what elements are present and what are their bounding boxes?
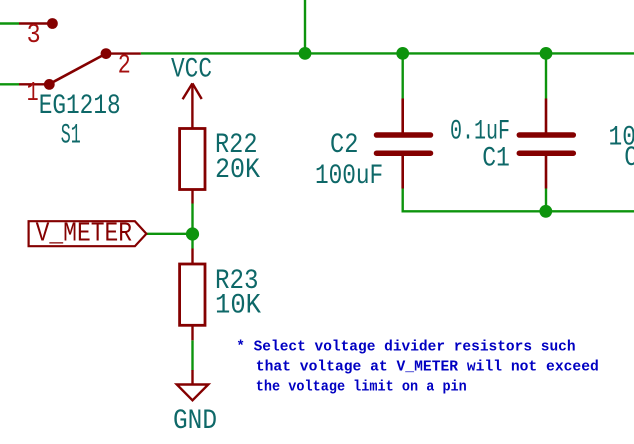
switch S1 bbox=[19, 18, 141, 90]
svg-text:20K: 20K bbox=[215, 155, 260, 186]
node V_METER global label bbox=[29, 219, 147, 249]
wire bbox=[545, 53, 547, 98]
ground bbox=[177, 370, 209, 400]
svg-text:EG1218: EG1218 bbox=[39, 91, 121, 122]
wire pin R22 bottom bbox=[191, 190, 193, 204]
svg-text:S1: S1 bbox=[61, 120, 81, 151]
junction bbox=[396, 47, 409, 60]
wire bbox=[191, 204, 193, 236]
junction bbox=[186, 227, 199, 240]
svg-text:C2: C2 bbox=[330, 130, 358, 161]
wire bbox=[545, 189, 547, 212]
wire bbox=[402, 189, 404, 212]
junction bbox=[540, 47, 553, 60]
svg-text:10K: 10K bbox=[215, 290, 261, 321]
wire bbox=[304, 0, 306, 53]
svg-text:2: 2 bbox=[118, 52, 131, 82]
svg-text:3: 3 bbox=[27, 21, 41, 51]
junction bbox=[539, 205, 552, 218]
resistor R23 bbox=[180, 249, 205, 341]
svg-text:C: C bbox=[624, 143, 634, 174]
wire bbox=[147, 233, 193, 235]
junction bbox=[299, 47, 312, 60]
svg-text:VCC: VCC bbox=[171, 55, 212, 86]
svg-text:that voltage at V_METER will n: that voltage at V_METER will not exceed bbox=[256, 360, 599, 376]
wire bbox=[141, 52, 634, 54]
svg-text:* Select voltage divider resis: * Select voltage divider resistors such bbox=[236, 340, 575, 356]
wire bbox=[0, 22, 19, 24]
wire bbox=[191, 233, 193, 249]
wire bbox=[0, 83, 19, 85]
svg-text:100uF: 100uF bbox=[315, 161, 383, 192]
svg-text:GND: GND bbox=[173, 406, 217, 437]
capacitor C2 bbox=[377, 99, 431, 189]
svg-text:the voltage limit on a pin: the voltage limit on a pin bbox=[256, 379, 467, 395]
power VCC bbox=[183, 83, 202, 128]
svg-text:V_METER: V_METER bbox=[36, 219, 133, 249]
svg-text:1: 1 bbox=[27, 79, 39, 109]
capacitor C1 bbox=[519, 99, 573, 189]
wire bbox=[402, 210, 634, 212]
resistor R22 bbox=[180, 129, 205, 190]
wire bbox=[402, 53, 404, 98]
note text bbox=[236, 340, 599, 396]
wire bbox=[191, 340, 193, 370]
svg-text:C1: C1 bbox=[482, 144, 510, 175]
